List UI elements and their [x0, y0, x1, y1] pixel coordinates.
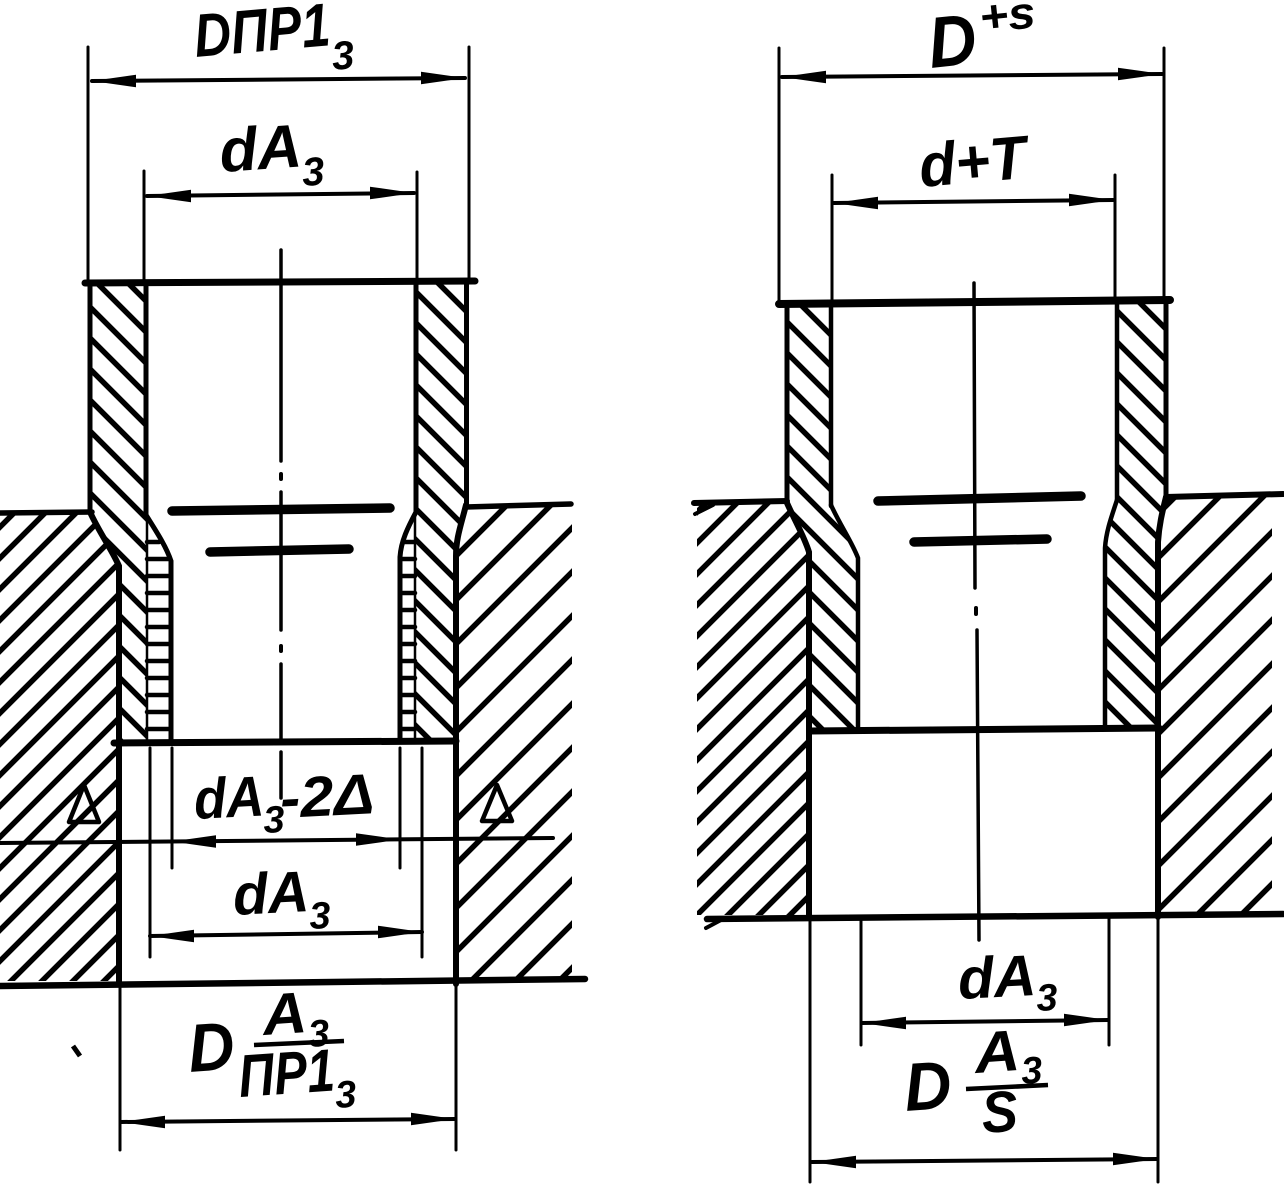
taper right — [1158, 497, 1166, 917]
sleeve bottom end — [114, 741, 456, 743]
dA3 arrows — [147, 190, 191, 203]
taper left — [787, 503, 809, 917]
sleeve bore right — [414, 281, 419, 512]
sleeve outer wall right — [464, 281, 469, 506]
svg-text:3: 3 — [308, 895, 331, 938]
rails below — [809, 919, 812, 1182]
D+s dim line — [782, 74, 1162, 77]
bore right — [1115, 301, 1120, 500]
sleeve right wall hatched region — [1105, 298, 1166, 728]
taper left (outer wall into hole) — [90, 512, 119, 984]
stray mark — [73, 1046, 80, 1056]
D A3/S dim line — [812, 1159, 1157, 1162]
outer wall left — [785, 304, 790, 503]
fraction bar right — [966, 1085, 1048, 1089]
d+T ext lines — [831, 175, 834, 301]
rails below: bottom dims — [119, 984, 122, 1150]
svg-text:+s: +s — [977, 0, 1038, 43]
arrows right figure — [782, 68, 1162, 1169]
sleeve top edge — [85, 281, 475, 283]
plate top left block — [694, 501, 787, 503]
dim dA3 line — [147, 193, 414, 196]
delta triangle right — [482, 785, 512, 821]
sleeve outer wall left — [88, 283, 93, 513]
svg-text:ПР1: ПР1 — [236, 1036, 336, 1110]
DPR1 arrows — [92, 75, 136, 88]
outer wall right — [1164, 300, 1169, 497]
dA3 dim line — [862, 1020, 1108, 1023]
sleeve left wall hatched region — [788, 305, 858, 728]
dim dA3 ext lines — [143, 171, 146, 281]
original bore rail right — [414, 514, 417, 741]
svg-text:dA: dA — [231, 859, 310, 928]
bore bend left — [831, 505, 858, 728]
deformed bore right — [400, 512, 416, 741]
svg-text:-2Δ: -2Δ — [278, 762, 375, 831]
svg-text:D: D — [924, 0, 980, 84]
deformed bore left — [146, 515, 171, 741]
centerline — [974, 283, 979, 940]
centerline — [279, 250, 283, 798]
dim dA3 bottom line — [150, 932, 422, 936]
fraction bar left — [254, 1041, 344, 1045]
plate bottom — [0, 979, 585, 986]
svg-text:dA: dA — [192, 764, 265, 832]
center cross mark 1 — [172, 508, 390, 511]
svg-text:3: 3 — [1035, 977, 1058, 1020]
svg-text:3: 3 — [334, 1074, 358, 1117]
sleeve bore left — [144, 283, 149, 515]
plate top surface left — [0, 512, 92, 513]
plate bottom — [707, 914, 1283, 919]
svg-text:3: 3 — [330, 33, 356, 79]
sleeve top edge — [779, 300, 1170, 304]
center cross mark 2 — [210, 549, 349, 552]
cross marks — [878, 496, 1081, 501]
sleeve right wall hatched region — [415, 283, 466, 741]
svg-text:A: A — [970, 1018, 1022, 1086]
dim dA3-2d line — [0, 838, 553, 843]
arrows left figure — [92, 72, 465, 1129]
ladder rungs right — [400, 542, 415, 729]
plate top surface right — [466, 504, 571, 507]
svg-text:dA: dA — [217, 111, 304, 185]
bore left — [829, 304, 834, 506]
dim DPR1 line — [92, 78, 465, 81]
svg-text:3: 3 — [301, 150, 326, 195]
bottom dim arrows — [121, 1116, 165, 1129]
dim D A3/PR1 bottom line — [121, 1119, 455, 1122]
plate top right block — [1166, 494, 1283, 497]
plate left hatched region — [697, 502, 809, 915]
plate right hatched region — [1158, 495, 1272, 914]
sleeve bottom — [810, 728, 1159, 731]
D+s ext lines — [778, 48, 781, 300]
dA3 bottom arrows — [150, 930, 194, 943]
svg-text:d+T: d+T — [916, 122, 1033, 199]
dim DPR1 ext lines — [87, 47, 90, 281]
bore bend right — [1105, 500, 1117, 728]
original bore rail left — [146, 517, 149, 741]
svg-text:D: D — [186, 1008, 237, 1087]
svg-text:D: D — [902, 1047, 954, 1126]
svg-text:dA: dA — [956, 943, 1037, 1012]
plate right hatched region — [456, 506, 572, 978]
sleeve left wall hatched region — [90, 285, 146, 741]
labels right figure — [902, 0, 1059, 1146]
delta triangle left — [69, 785, 99, 822]
svg-text:DПР1: DПР1 — [191, 0, 332, 70]
plate left hatched region — [0, 514, 119, 981]
dA3-2d arrows — [172, 835, 216, 848]
d+T dim line — [834, 200, 1113, 203]
labels left figure — [186, 0, 376, 1117]
ladder rungs left — [147, 542, 170, 729]
taper right — [456, 505, 466, 984]
